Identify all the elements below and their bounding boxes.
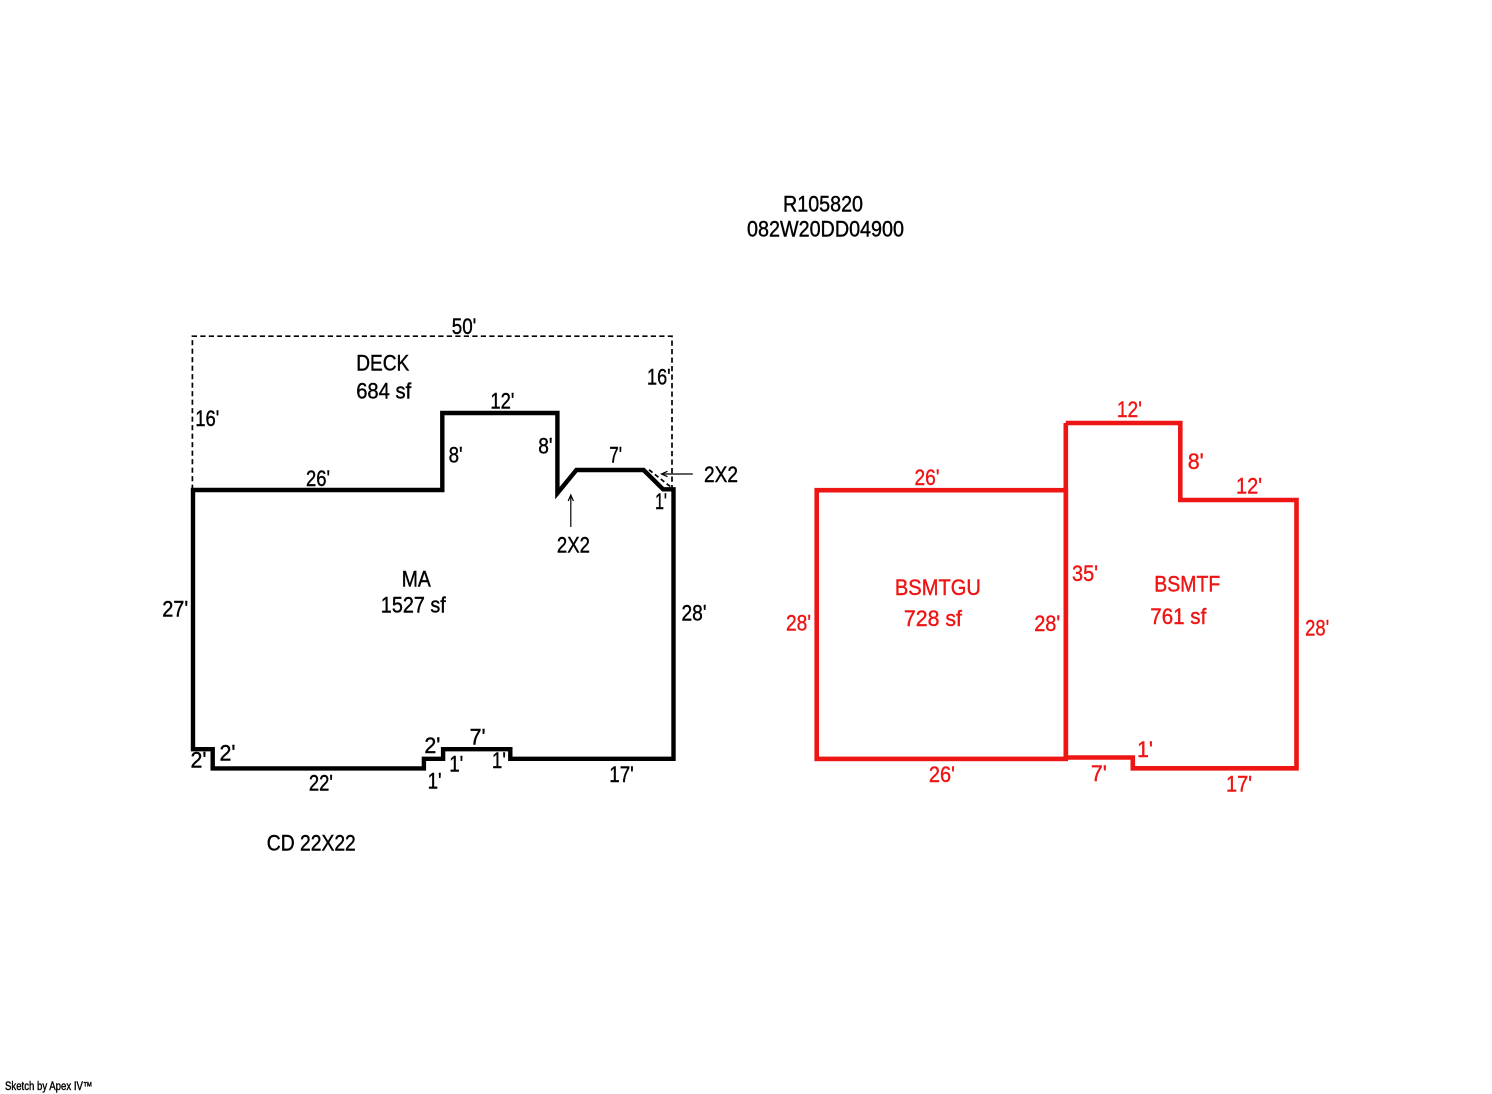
svg-text:26': 26' <box>306 466 330 491</box>
svg-text:728 sf: 728 sf <box>904 606 963 631</box>
svg-text:684 sf: 684 sf <box>356 378 412 403</box>
svg-text:BSMTF: BSMTF <box>1154 572 1220 597</box>
svg-text:2X2: 2X2 <box>704 462 738 487</box>
svg-text:CD 22X22: CD 22X22 <box>267 831 356 856</box>
svg-text:1': 1' <box>655 489 667 514</box>
svg-text:35': 35' <box>1072 561 1098 586</box>
deck 2x2 dashed corner cut <box>649 470 671 487</box>
svg-text:8': 8' <box>449 442 463 467</box>
arrow to 2x2 corner cut (right) <box>662 471 693 476</box>
svg-text:17': 17' <box>1226 772 1252 797</box>
BSMTF outline red <box>1064 423 1297 768</box>
svg-text:1': 1' <box>428 768 442 793</box>
svg-text:DECK: DECK <box>356 350 409 375</box>
svg-text:28': 28' <box>1034 611 1060 636</box>
deck dashed outline <box>192 336 672 490</box>
svg-text:7': 7' <box>470 725 486 750</box>
svg-text:28': 28' <box>786 611 811 636</box>
svg-text:28': 28' <box>1305 615 1329 640</box>
svg-text:MA: MA <box>402 567 431 592</box>
svg-text:2': 2' <box>191 748 207 773</box>
svg-text:2': 2' <box>424 733 440 758</box>
MA outline <box>193 413 674 768</box>
svg-text:Sketch by Apex IV™: Sketch by Apex IV™ <box>5 1081 93 1093</box>
svg-text:16': 16' <box>647 365 671 390</box>
svg-text:7': 7' <box>1091 761 1107 786</box>
svg-text:1': 1' <box>1137 737 1153 762</box>
svg-text:26': 26' <box>915 465 940 490</box>
svg-text:50': 50' <box>452 314 477 339</box>
svg-text:082W20DD04900: 082W20DD04900 <box>747 217 904 242</box>
svg-text:1': 1' <box>449 751 463 776</box>
svg-text:2': 2' <box>220 741 236 766</box>
BSMTGU outline red <box>817 490 1066 759</box>
svg-text:8': 8' <box>538 433 552 458</box>
svg-text:26': 26' <box>929 762 955 787</box>
svg-text:12': 12' <box>1117 397 1142 422</box>
svg-text:7': 7' <box>609 443 622 468</box>
svg-text:1527 sf: 1527 sf <box>381 593 447 618</box>
svg-text:22': 22' <box>309 770 333 795</box>
svg-text:2X2: 2X2 <box>557 533 590 558</box>
svg-text:761 sf: 761 sf <box>1150 604 1207 629</box>
BSMT middle shared wall <box>1064 423 1069 759</box>
svg-text:28': 28' <box>682 601 707 626</box>
arrow to 2x2 notch (bottom) <box>568 495 573 527</box>
svg-text:1': 1' <box>492 748 506 773</box>
svg-text:R105820: R105820 <box>783 191 863 216</box>
svg-text:12': 12' <box>490 389 514 414</box>
svg-text:17': 17' <box>609 762 634 787</box>
svg-text:16': 16' <box>195 406 219 431</box>
svg-text:12': 12' <box>1236 474 1262 499</box>
svg-text:27': 27' <box>162 596 188 621</box>
svg-text:8': 8' <box>1188 449 1204 474</box>
svg-text:BSMTGU: BSMTGU <box>895 575 981 600</box>
